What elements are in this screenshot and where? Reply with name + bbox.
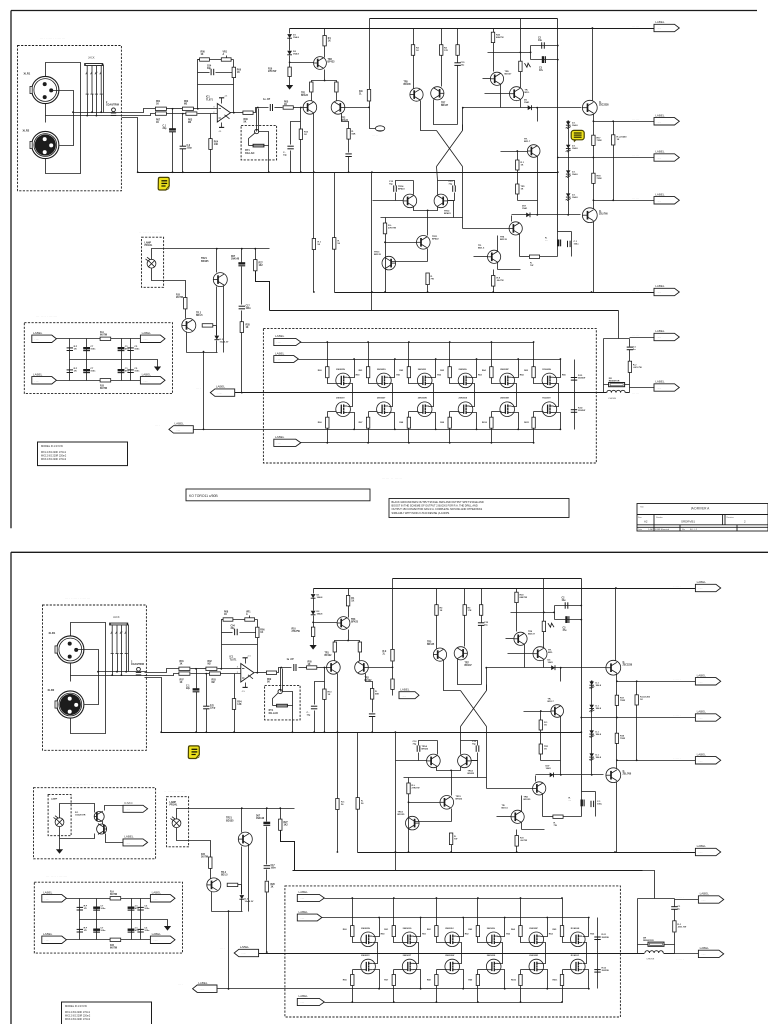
svg-text:.. ..... ........: .. ..... ........	[139, 230, 161, 234]
net flag drive p1	[169, 422, 193, 434]
resistor R31 p1	[312, 239, 315, 250]
wire tr9 base p1	[483, 78, 491, 80]
junction drain top c0 p2	[378, 917, 380, 919]
svg-text:RESISTOR: RESISTOR	[643, 940, 654, 942]
svg-text:BF423: BF423	[444, 212, 451, 215]
svg-text:. .....: . .....	[35, 339, 40, 341]
svg-text:LABEL: LABEL	[33, 331, 43, 335]
capacitor C08 p1	[345, 154, 351, 157]
resistor R23 680 p1	[491, 32, 494, 42]
diode D05 p2	[551, 665, 555, 670]
resistor R2B 2K p2	[209, 857, 212, 868]
label R16 p1	[359, 91, 363, 96]
junction gate top c0 p1	[326, 341, 328, 343]
capacitor C04 33p p1	[211, 69, 214, 75]
capacitor C07 10p p1	[287, 146, 293, 149]
junction gate bot c2 p2	[436, 1001, 438, 1003]
net flag out5 p1	[654, 284, 679, 296]
junction v558 p1	[557, 171, 559, 173]
resistor RG2 p1	[366, 367, 369, 378]
capacitor C1 5u p2	[671, 907, 677, 910]
resistor R8L p2	[515, 836, 518, 847]
svg-text:MX3.2 8/2 220K 170m2: MX3.2 8/2 220K 170m2	[41, 458, 67, 461]
ground EQ p1	[154, 367, 161, 372]
transistor TR11 BF422 p2	[440, 796, 454, 810]
junction drain top c2 p1	[435, 358, 437, 360]
net flag gate-bot p2	[297, 994, 324, 1005]
resistor R07 p2	[179, 672, 190, 675]
svg-text:R07: R07	[180, 680, 185, 682]
label R02 p2	[208, 661, 213, 666]
svg-text:2SL/760: 2SL/760	[623, 774, 632, 776]
label QB5 p2	[529, 955, 538, 957]
transistor TR10 p1	[510, 87, 524, 101]
svg-text:14K: 14K	[214, 143, 219, 146]
label TR7 p1	[441, 103, 449, 108]
wire trd emit p2	[542, 794, 544, 817]
label TR5 p1	[404, 82, 412, 87]
wire gate in c2 p2	[437, 937, 447, 943]
wire fb right bot p2	[257, 638, 259, 673]
wire gate bot c3 p1	[449, 429, 451, 443]
wire fb right top p2	[257, 620, 259, 628]
resistor RS2 p1	[516, 184, 519, 194]
wire q3 collu p1	[511, 216, 513, 222]
diode pair DZ1 p2	[589, 682, 594, 689]
label DZ4 p2	[596, 754, 602, 759]
wire EQ col lower p1	[121, 360, 123, 381]
wire drain up c4 p2	[541, 918, 548, 937]
wire tr7 res bot p2	[464, 616, 466, 647]
junction gnd rail p2	[337, 731, 339, 733]
relay RY1 p1 coil	[253, 144, 264, 147]
wire pair emitters p1	[414, 207, 438, 211]
label RD0 p1	[356, 374, 361, 376]
wire EQ col lower p2	[140, 920, 142, 940]
net flag EQ BR p2	[150, 932, 175, 944]
label QT3 p1	[418, 369, 426, 371]
svg-text:BF422: BF422	[456, 798, 463, 801]
svg-text:R05: R05	[308, 662, 313, 664]
svg-text:MX3.2 8/2 220K 170m2: MX3.2 8/2 220K 170m2	[65, 1018, 91, 1021]
junction v558 p2	[580, 619, 582, 621]
svg-text:2SK905J: 2SK905J	[418, 369, 426, 371]
wire cap drop p2	[266, 809, 268, 822]
svg-text:.. ..... ........: .. ..... ........	[164, 789, 186, 793]
label RG1 p2	[343, 929, 348, 931]
label EQ c1 p2	[100, 906, 106, 911]
wire drain bus top p1	[299, 359, 561, 361]
wire jack pin b p2	[117, 654, 119, 672]
label R27 p2	[284, 822, 289, 827]
junction relay tap p2	[280, 667, 282, 669]
wire capbox l p2	[581, 792, 583, 817]
junction jack p1	[91, 111, 93, 113]
wire q3 collu p2	[535, 776, 537, 782]
svg-text:.06/1.7W: .06/1.7W	[633, 367, 643, 369]
wire q6 emit p2	[616, 782, 618, 853]
wire flag6 net p1	[630, 337, 655, 339]
svg-text:BD1.5: BD1.5	[221, 875, 228, 877]
wire re seg p2	[543, 816, 553, 818]
wire fb tap p1	[345, 107, 370, 109]
inductor choke p2	[645, 951, 663, 953]
wire gate drop c0 p2	[352, 899, 354, 926]
svg-text:.... ...... ........: .... ...... ........	[65, 596, 91, 600]
svg-text:R.B: R.B	[110, 945, 114, 947]
svg-text:PR1/4L: PR1/4L	[145, 244, 153, 247]
relay RY1 p1 value label	[245, 149, 254, 155]
diode pair DZ4 p2	[589, 753, 594, 760]
wire gate in bot c4 p1	[492, 411, 502, 413]
wire relay drop b p1	[258, 109, 260, 132]
page 2 top border	[11, 551, 768, 553]
svg-text:100n: 100n	[144, 908, 150, 910]
wire drain up c2 p2	[457, 918, 464, 937]
junction v613b p2	[636, 759, 638, 761]
svg-text:... .... ........: ... .... ........	[36, 314, 58, 318]
wire tr21 base chain p2	[241, 847, 243, 895]
resistor R27K p2	[407, 783, 410, 794]
svg-text:BOOST IN THE SCHEME OF OUTPUT: BOOST IN THE SCHEME OF OUTPUT 2 BUCKS FO…	[392, 505, 478, 508]
label R16 p2	[383, 651, 387, 656]
wire gate in bot c5 p1	[534, 411, 544, 413]
label COAX TRIM p1	[106, 102, 119, 107]
wire c15 top p1	[457, 29, 459, 45]
resistor RGB2 p2	[392, 975, 395, 986]
label IC1 p2	[230, 656, 238, 662]
svg-text:LABEL: LABEL	[655, 113, 665, 117]
junction drain top c5 p2	[588, 917, 590, 919]
transistor TR14 p1	[403, 194, 417, 208]
wire q1 coll top p2	[516, 589, 518, 593]
label QB5 p1	[500, 398, 509, 400]
svg-text:1N4148: 1N4148	[231, 258, 240, 261]
wire gate bot c0 p1	[327, 429, 329, 443]
label R04 p2	[237, 701, 242, 707]
label TR22 p2	[221, 872, 228, 877]
wire gate bot c0 p2	[352, 986, 354, 1003]
svg-text:....: ....	[178, 981, 183, 985]
wire top rail2 p2	[393, 578, 582, 580]
label C15 p1	[461, 62, 466, 67]
svg-text:220p: 220p	[210, 708, 216, 710]
label C04 p2	[231, 625, 236, 631]
label R31 p1	[318, 242, 322, 247]
junction gate top c3 p2	[477, 897, 479, 899]
net flag out4 p2	[695, 752, 720, 764]
label C17 p2	[271, 865, 277, 870]
wire cs node p1	[324, 70, 326, 81]
label RG5 p1	[482, 369, 487, 372]
wire flag feed p2	[392, 690, 394, 696]
wire bus A p2	[358, 852, 696, 854]
wire tr3 coll2 p2	[348, 606, 350, 618]
svg-text:R610: R610	[511, 980, 517, 982]
wire tr2 coll3 p1	[348, 157, 350, 173]
junction drain top c3 p2	[504, 917, 506, 919]
junction p2	[97, 671, 99, 673]
label QB2 p1	[377, 398, 386, 400]
junction p2	[279, 807, 281, 809]
wire gate in c5 p2	[563, 937, 572, 943]
net flag out7 p1	[654, 380, 679, 392]
wire signal B main p2	[145, 674, 179, 676]
junction gate top c1 p1	[367, 341, 369, 343]
label RGB4 p1	[440, 422, 445, 424]
junction gnd rail p1	[348, 171, 350, 173]
wire drain up c0 p1	[348, 360, 355, 378]
wire out d p1	[294, 107, 304, 109]
svg-text:1N4.8: 1N4.8	[317, 596, 324, 599]
svg-text:. .....: . .....	[657, 28, 662, 30]
capacitor EQ C7b p2	[93, 929, 100, 933]
svg-text:10u/6.3V: 10u/6.3V	[220, 342, 229, 344]
label RD4 p1	[520, 373, 525, 376]
junction f4 p1	[593, 199, 595, 201]
wire tr22 emitter bus p2	[212, 911, 243, 913]
svg-text:10u/6.3V: 10u/6.3V	[245, 901, 254, 903]
net flag core p2	[399, 688, 419, 699]
svg-text:R07: R07	[156, 120, 161, 122]
capacitor CB2 100u p1	[568, 241, 571, 247]
label C100u p2	[597, 801, 603, 806]
resistor RG1 p1	[326, 367, 329, 378]
wire trq emit p1	[497, 263, 499, 270]
label TR12 p2	[468, 771, 475, 776]
label Q5 p1	[599, 102, 609, 107]
svg-text:2SK905J: 2SK905J	[445, 928, 453, 930]
wire gate drop c1 p2	[393, 899, 395, 926]
svg-text:TR3: TR3	[351, 619, 356, 621]
svg-text:TR.2: TR.2	[196, 313, 202, 315]
junction tr11b p1	[384, 241, 386, 243]
junction gnd rail p1	[172, 171, 174, 173]
resistor RG4 p1	[448, 367, 451, 378]
label RG5 p2	[511, 928, 516, 931]
resistor R15 p1	[347, 129, 350, 140]
capacitor C16 p2	[263, 822, 270, 826]
wire tr7 res top p2	[464, 589, 466, 605]
svg-text:680/7W: 680/7W	[520, 597, 528, 599]
wire source down c2 p1	[429, 384, 434, 393]
wire drive line p2	[536, 774, 604, 776]
wire vr1 wiper p2	[249, 616, 251, 618]
svg-text:R02: R02	[208, 661, 213, 663]
label C12 p2	[413, 741, 418, 746]
net flag EQ TL p1	[32, 331, 57, 343]
svg-text:R28: R28	[271, 884, 276, 886]
label R10 p2	[292, 629, 301, 634]
label QT1 p2	[361, 928, 370, 930]
svg-text:LABEL: LABEL	[43, 932, 53, 936]
svg-text:MX1.2 8/2 220K 170m1: MX1.2 8/2 220K 170m1	[65, 1011, 91, 1014]
resistor R08 p2	[223, 618, 233, 621]
EQ network box p1	[24, 323, 172, 394]
wire A seg3 p1	[194, 108, 218, 110]
svg-text:XLR2: XLR2	[23, 129, 30, 133]
wire tr2 coll p2	[366, 674, 373, 689]
junction gate top c5 p1	[533, 341, 535, 343]
relay RY1 p2 wire	[283, 692, 293, 706]
label QB6 p2	[571, 954, 580, 957]
transistor TR13 BD135 p2	[406, 816, 420, 830]
svg-text:. .....: . .....	[300, 918, 305, 920]
label RGB3 p1	[399, 422, 404, 424]
label QT5 p1	[500, 369, 509, 371]
label R13 p1	[304, 132, 309, 137]
wire r19 feed p2	[543, 579, 545, 613]
label QT6 p1	[542, 368, 551, 371]
mosfet Q1T 2SK905N p1	[336, 373, 351, 388]
net flag gate-top p1	[274, 334, 301, 345]
svg-text:LABEL: LABEL	[655, 20, 665, 24]
label D03 p1	[220, 339, 229, 344]
label Q5 p2	[623, 662, 633, 667]
wire cap drop p1	[241, 249, 243, 263]
svg-text:RCA9GN: RCA9GN	[542, 368, 551, 371]
resistor R16 p1	[367, 89, 370, 101]
wire cap row2 p1	[531, 59, 558, 61]
wire r2c p2	[238, 884, 242, 886]
junction relay tap p1	[257, 107, 259, 109]
wire tr7 emitter p1	[434, 100, 458, 125]
wire drain down c2 p1	[429, 413, 436, 430]
wire XLR pin3 link p2	[78, 650, 99, 705]
wire net left p2	[637, 899, 639, 954]
capacitor C17 100n p2	[264, 866, 270, 869]
capacitor EQ C1 p1	[118, 347, 125, 351]
svg-text:JACK: JACK	[113, 615, 120, 619]
diode pair DZ3 p1	[566, 170, 571, 177]
svg-text:LABEL: LABEL	[152, 890, 162, 894]
junction v558 p1	[557, 157, 559, 159]
label C06 p1	[187, 145, 193, 150]
wire r11 low p2	[334, 653, 336, 661]
svg-text:R10: R10	[268, 69, 273, 71]
junction rail p1	[592, 27, 594, 29]
wire tr22 down p1	[186, 332, 188, 353]
svg-text:RCA9GY: RCA9GY	[571, 954, 580, 957]
wire drain down c4 p2	[541, 970, 548, 989]
wire dchain p2	[591, 682, 593, 775]
svg-text:R01: R01	[156, 101, 161, 103]
model table text p1	[41, 444, 67, 461]
output stage dashed box p2	[285, 886, 621, 1017]
svg-text:56K: 56K	[375, 694, 379, 696]
wire tr11 emit p1	[427, 249, 429, 262]
wire drain down c2 p2	[457, 970, 464, 989]
wire fan d	[106, 834, 124, 843]
svg-text:. .....: . .....	[701, 954, 706, 956]
transistor TR12 p2	[458, 754, 472, 768]
wire v558 p1	[557, 19, 559, 232]
net flag gate-bot p1	[274, 435, 301, 446]
wire c12 loop p1	[396, 181, 414, 186]
wire source down c4 p1	[512, 384, 517, 393]
sticky note 1	[158, 177, 169, 190]
label LAMP p2	[170, 801, 178, 807]
junction gnd rail p2	[195, 731, 197, 733]
wire cap row1 p2	[555, 605, 582, 607]
diode pair DZ3 p2	[589, 730, 594, 737]
svg-text:BF422: BF422	[301, 94, 309, 97]
label R07 p2	[180, 680, 185, 685]
junction f2 p2	[616, 680, 618, 682]
wire tr5 res bot p2	[436, 616, 438, 649]
svg-text:MODEL R.1 R.9 W: MODEL R.1 R.9 W	[65, 1004, 87, 1008]
label QT1 p1	[336, 369, 345, 371]
wire cap col p1	[574, 360, 576, 393]
wire tr7 emitter p2	[458, 660, 482, 685]
wire tr10 base p1	[485, 93, 510, 95]
wire gate drop bot c0 p2	[352, 970, 354, 975]
label R27K p2	[412, 785, 421, 790]
label TR14 p1	[398, 185, 405, 191]
junction fb p1	[197, 108, 199, 110]
svg-text:220p: 220p	[187, 148, 193, 150]
label QB1 p2	[361, 955, 370, 957]
wire source down c5 p2	[583, 943, 587, 954]
wire out a p1	[231, 112, 243, 114]
resistor RGB4 p1	[448, 417, 451, 428]
transistor TR10 p2	[533, 647, 547, 661]
wire gate drop bot c3 p1	[449, 412, 451, 418]
transistor TR11 BF422 p1	[417, 236, 431, 250]
wire x left down p1	[437, 167, 438, 181]
svg-text:1N4148: 1N4148	[256, 817, 265, 820]
label DZ4 p1	[572, 194, 578, 199]
wire left long p2	[395, 733, 397, 871]
label RD2 p2	[465, 933, 470, 935]
label RG4 p1	[440, 370, 445, 372]
svg-text:1N4.8: 1N4.8	[572, 173, 578, 176]
resistor RE p1	[529, 255, 539, 258]
resistor R18 p1	[592, 173, 595, 183]
wire drive bus p1	[194, 429, 561, 431]
label TR2 p1	[341, 118, 349, 123]
wire cap row1 p1	[531, 45, 558, 47]
label RG1 p1	[318, 370, 323, 372]
wire v613 p1	[613, 122, 615, 201]
junction B cap p1	[182, 113, 184, 115]
svg-text:100n: 100n	[90, 349, 96, 351]
wire sb bottom p1	[518, 200, 538, 202]
label C01 p1	[163, 126, 168, 131]
resistor R12 p2	[358, 642, 361, 652]
junction gnd rail p2	[395, 731, 397, 733]
wire tr5 res bot p1	[413, 56, 415, 89]
resistor R09 p1	[243, 111, 253, 114]
wire gate in c3 p1	[450, 378, 460, 384]
wire cap left p1	[530, 46, 532, 60]
svg-text:MX2.2 8/2 220R 220m2: MX2.2 8/2 220R 220m2	[65, 1014, 91, 1017]
wire EQ col p1	[69, 339, 71, 360]
junction gate top c4 p2	[520, 897, 522, 899]
wire flag2 net p2	[617, 681, 696, 683]
lamp dashed box p2	[167, 797, 189, 847]
label C04 p1	[207, 65, 212, 71]
junction cs p2	[347, 640, 349, 642]
svg-text:. .....: . .....	[241, 953, 246, 955]
label C13 p1	[449, 181, 454, 186]
wire trs base p2	[524, 711, 551, 713]
wire comp c p1	[290, 151, 292, 173]
junction drain bot c1 p2	[420, 988, 422, 990]
wire gate bus top p2	[325, 898, 563, 900]
wire output line p2b	[664, 953, 675, 955]
svg-text:....: ....	[155, 422, 160, 426]
